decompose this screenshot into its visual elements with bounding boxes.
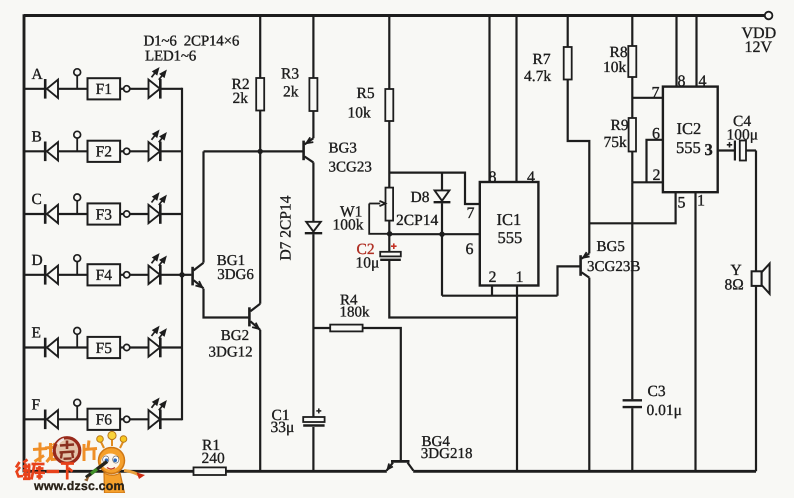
svg-text:6: 6 bbox=[652, 126, 660, 143]
svg-text:A: A bbox=[32, 66, 44, 83]
svg-text:F5: F5 bbox=[96, 340, 113, 357]
wire: row E LED to collector bus bbox=[160, 346, 182, 348]
node: row B output terminal bbox=[120, 148, 148, 154]
block F1 sensor unit bbox=[88, 78, 121, 99]
svg-text:10k: 10k bbox=[348, 105, 372, 122]
wire: row C from left bus to diode bbox=[24, 213, 45, 215]
node: row F sensor terminal bbox=[74, 399, 81, 419]
wire: pin2 run to BG5 base riser bbox=[442, 295, 558, 297]
label Y 8ohm bbox=[725, 262, 744, 294]
transistor BG2 3DG12 bbox=[249, 304, 260, 330]
svg-text:75k: 75k bbox=[604, 134, 628, 151]
wire: IC1 pin2 stub bbox=[491, 286, 493, 296]
wire: row D diode to box F4 bbox=[58, 274, 88, 276]
transistor BG3 3CG23 bbox=[304, 137, 314, 162]
pin label 6 (IC1) bbox=[466, 241, 474, 258]
svg-text:R3: R3 bbox=[281, 66, 299, 83]
resistor R3 2k bbox=[281, 16, 317, 139]
svg-text:8: 8 bbox=[489, 169, 497, 186]
pin label 6 (IC2) bbox=[652, 126, 660, 143]
label BG2 bbox=[209, 328, 253, 361]
label W1 bbox=[333, 204, 364, 234]
diode D6 2CP14 bbox=[45, 410, 58, 430]
pin label 4 (IC1) bbox=[527, 169, 535, 186]
node: row E sensor terminal bbox=[74, 328, 81, 348]
node A input label bbox=[32, 66, 44, 83]
wire: BG5 collector to ground bus bbox=[588, 278, 590, 472]
potentiometer W1 100k bbox=[369, 188, 393, 234]
resistor R8 10k bbox=[603, 16, 636, 119]
IC U2: IC2 555 timer box bbox=[663, 87, 718, 193]
svg-text:E: E bbox=[32, 325, 41, 342]
svg-text:6: 6 bbox=[466, 241, 474, 258]
svg-text:IC2: IC2 bbox=[677, 119, 702, 138]
node B input label bbox=[32, 128, 42, 145]
node C input label bbox=[32, 191, 42, 208]
wire: row D from left bus to diode bbox=[24, 274, 45, 276]
svg-text:D1~6 2CP14×6: D1~6 2CP14×6 bbox=[144, 34, 240, 50]
wire: row F from left bus to diode bbox=[24, 418, 45, 420]
svg-text:3DG6: 3DG6 bbox=[217, 267, 254, 283]
node D input label bbox=[32, 252, 43, 269]
capacitor C3 0.01μ bbox=[623, 182, 682, 471]
svg-text:F6: F6 bbox=[96, 412, 113, 429]
svg-text:F2: F2 bbox=[96, 144, 112, 161]
block F3 sensor unit bbox=[88, 203, 121, 224]
annotation: diode types bbox=[144, 34, 240, 50]
wire: row B LED to collector bus bbox=[160, 150, 182, 152]
wire: row E diode to box F5 bbox=[58, 346, 88, 348]
label BG5 bbox=[587, 239, 640, 275]
junction W1 wiper node bbox=[387, 231, 392, 236]
wire: bottom ground bus (left of R1) bbox=[24, 470, 194, 473]
svg-text:7: 7 bbox=[652, 85, 660, 102]
diode D4 2CP14 bbox=[45, 265, 58, 285]
wire: +V top supply bus bbox=[24, 14, 765, 17]
svg-text:D8: D8 bbox=[411, 189, 430, 206]
svg-text:F1: F1 bbox=[96, 81, 112, 98]
pin label 2 (IC1) bbox=[489, 269, 497, 286]
pin label 7 (IC2) bbox=[652, 85, 660, 102]
junction D8/pin6 node bbox=[439, 232, 444, 237]
svg-text:F3: F3 bbox=[96, 206, 113, 223]
wire: BG2 collector up to node bbox=[259, 151, 261, 303]
svg-text:180k: 180k bbox=[340, 305, 371, 321]
wire: BG1 collector up to node bbox=[202, 151, 204, 262]
resistor R9 75k bbox=[604, 117, 637, 182]
node: row F output terminal bbox=[120, 416, 148, 422]
wire: R5 node to pin7 corner bbox=[389, 173, 479, 204]
svg-text:4: 4 bbox=[527, 169, 535, 186]
block F6 sensor unit bbox=[88, 409, 121, 430]
node: row E output terminal bbox=[120, 344, 148, 350]
svg-text:1: 1 bbox=[697, 193, 705, 210]
wire: BG2 emitter down to ground bus bbox=[259, 330, 261, 471]
wire: IC2 pin7 run bbox=[632, 97, 662, 99]
svg-text:C: C bbox=[32, 191, 42, 208]
svg-text:2k: 2k bbox=[233, 90, 249, 107]
junction R2/BG collectors node bbox=[258, 149, 263, 154]
svg-text:33μ: 33μ bbox=[271, 419, 295, 436]
node: row A output terminal bbox=[120, 86, 148, 92]
diode D7 2CP14 bbox=[305, 222, 322, 233]
speaker Y 8 ohm bbox=[752, 264, 770, 294]
pin label 7 (IC1) bbox=[467, 205, 475, 222]
block F4 sensor unit bbox=[88, 264, 121, 285]
svg-text:C3: C3 bbox=[648, 383, 666, 400]
label D7 (vertical) bbox=[278, 195, 295, 260]
wire: IC1 pin1 to ground bus bbox=[516, 286, 518, 472]
diode D1 2CP14 bbox=[45, 79, 58, 99]
resistor R5 10k bbox=[348, 16, 394, 188]
svg-text:2: 2 bbox=[489, 269, 497, 286]
node F input label bbox=[32, 396, 41, 413]
svg-text:4.7k: 4.7k bbox=[524, 68, 551, 85]
wire: D7 cathode down to C1 bbox=[312, 234, 314, 417]
svg-text:D: D bbox=[32, 252, 43, 269]
wire: row F diode to box F6 bbox=[58, 418, 88, 420]
svg-text:10μ: 10μ bbox=[356, 255, 380, 272]
label BG3 bbox=[329, 141, 372, 176]
svg-text:BG5: BG5 bbox=[597, 239, 625, 255]
pin label 1 (IC2) bbox=[697, 193, 705, 210]
diode D2 2CP14 bbox=[45, 142, 58, 162]
pin label 2 (IC2) bbox=[653, 167, 661, 184]
wire: row C LED to collector bus bbox=[160, 213, 182, 215]
label BG4 bbox=[421, 434, 473, 462]
junction at LED bus / BG1 base bbox=[179, 272, 184, 277]
LED LED4 bbox=[149, 254, 167, 285]
diode D8 2CP14 bbox=[434, 173, 451, 203]
block F5 sensor unit bbox=[88, 337, 121, 358]
pin label 8 (IC2) bbox=[678, 73, 686, 90]
pin label 4 (IC2) bbox=[699, 73, 707, 90]
IC U1: IC1 555 timer box bbox=[480, 182, 539, 286]
pin label 1 (IC1) bbox=[516, 269, 524, 286]
svg-text:F4: F4 bbox=[96, 267, 113, 284]
wire: bottom ground bus (right of BG4) bbox=[413, 470, 756, 473]
wire: IC1 pin 4 to supply bbox=[515, 16, 517, 182]
svg-text:8Ω: 8Ω bbox=[725, 277, 744, 294]
node: row D sensor terminal bbox=[74, 255, 81, 275]
svg-text:7: 7 bbox=[467, 205, 475, 222]
block F2 sensor unit bbox=[88, 141, 121, 162]
wire: pin6 run W1 node to IC1 bbox=[389, 233, 479, 235]
wire: IC2 pin 4 to supply bbox=[695, 16, 697, 87]
svg-text:240: 240 bbox=[202, 450, 226, 467]
capacitor C2 10μ bbox=[356, 241, 401, 272]
node: row C output terminal bbox=[120, 211, 148, 217]
wire: BG1 base from bus bbox=[182, 274, 191, 276]
wire: row B diode to box F2 bbox=[58, 150, 88, 152]
svg-text:F: F bbox=[32, 396, 41, 413]
svg-text:3DG12: 3DG12 bbox=[209, 345, 253, 361]
svg-text:555: 555 bbox=[676, 138, 701, 157]
wire: IC2 pin 8 to supply bbox=[675, 16, 677, 87]
transistor BG4 3DG218 bbox=[387, 461, 414, 470]
resistor R4 180k bbox=[330, 293, 370, 332]
wire: row B from left bus to diode bbox=[24, 150, 45, 152]
wire: row E from left bus to diode bbox=[24, 346, 45, 348]
LED LED2 bbox=[149, 131, 167, 162]
svg-text:5: 5 bbox=[678, 195, 686, 212]
wire: IC2 pin3 to C4 bbox=[718, 149, 735, 151]
svg-text:100k: 100k bbox=[333, 217, 364, 234]
wire: speaker return riser bbox=[755, 286, 757, 471]
node: row B sensor terminal bbox=[74, 131, 81, 151]
transistor BG1 3DG6 bbox=[193, 263, 204, 289]
wire: BG3 collector down to D7 bbox=[312, 162, 314, 221]
wire: W1 to C2 bbox=[388, 221, 390, 252]
svg-text:0.01μ: 0.01μ bbox=[647, 402, 682, 419]
wire: BG5 base riser bbox=[558, 266, 580, 295]
node: row D output terminal bbox=[120, 272, 148, 278]
transistor BG5 3CG23B bbox=[581, 252, 590, 278]
svg-text:R5: R5 bbox=[357, 85, 375, 102]
svg-text:2: 2 bbox=[653, 167, 661, 184]
svg-text:100μ: 100μ bbox=[727, 127, 759, 144]
node: row A sensor terminal bbox=[74, 69, 81, 89]
wire: IC2 pin6 tie to pin2 bbox=[647, 140, 663, 183]
svg-text:www.dzsc.com: www.dzsc.com bbox=[33, 479, 125, 493]
svg-text:4: 4 bbox=[699, 73, 707, 90]
wire: BG1 emitter to BG2 base bbox=[204, 289, 249, 318]
svg-text:R7: R7 bbox=[533, 51, 551, 68]
watermark logo www.dzsc.com bbox=[16, 431, 145, 493]
svg-text:3: 3 bbox=[705, 140, 713, 159]
LED LED3 bbox=[149, 193, 167, 224]
label BG1 bbox=[217, 253, 255, 283]
svg-text:LED1~6: LED1~6 bbox=[145, 49, 197, 65]
wire: R4 to BG4 base bbox=[363, 328, 401, 460]
wire: left input bus bbox=[23, 14, 26, 472]
svg-text:B: B bbox=[32, 128, 42, 145]
pin label 8 (IC1) bbox=[489, 169, 497, 186]
wire: row A LED to collector bus bbox=[160, 88, 182, 90]
wire: IC2 pin2 run bbox=[632, 181, 662, 183]
capacitor C4 100μ bbox=[727, 113, 759, 161]
wire: IC2 pin5 run bbox=[589, 193, 675, 224]
svg-text:BG2: BG2 bbox=[221, 328, 249, 344]
wire: collectors node to BG3 base bbox=[204, 150, 303, 152]
wire: D8 cathode down to pin2 run bbox=[441, 203, 443, 296]
wire: bottom ground bus (R1 to BG4) bbox=[226, 470, 387, 473]
svg-text:12V: 12V bbox=[745, 39, 773, 56]
wire: row C diode to box F3 bbox=[58, 213, 88, 215]
wire: row F LED to collector bus bbox=[160, 418, 182, 420]
wire: row A from left bus to diode bbox=[24, 88, 45, 90]
capacitor C1 33μ bbox=[271, 407, 325, 436]
wire: row A diode to box F1 bbox=[58, 88, 88, 90]
resistor R2 2k bbox=[232, 16, 265, 152]
resistor R7 4.7k bbox=[524, 16, 589, 254]
wire: C4 to speaker bbox=[755, 151, 757, 272]
svg-text:2k: 2k bbox=[283, 84, 299, 101]
svg-text:IC1: IC1 bbox=[497, 210, 522, 229]
wire: IC1 pin 8 to supply bbox=[488, 16, 490, 182]
LED LED6 bbox=[149, 399, 167, 430]
svg-text:BG3: BG3 bbox=[329, 141, 357, 157]
wire: C1 to ground bus bbox=[312, 427, 314, 471]
node: row C sensor terminal bbox=[74, 194, 81, 214]
LED LED5 bbox=[149, 327, 167, 358]
resistor R1 240 bbox=[194, 437, 226, 475]
svg-text:555: 555 bbox=[498, 228, 523, 247]
svg-text:10k: 10k bbox=[603, 59, 627, 76]
svg-text:3DG218: 3DG218 bbox=[421, 446, 473, 462]
wire: row D LED to collector bus bbox=[160, 274, 182, 276]
wire: LED common bus to BG1 base bbox=[181, 88, 183, 421]
annotation: LED types bbox=[145, 49, 197, 65]
svg-text:8: 8 bbox=[678, 73, 686, 90]
wire: D7 line to R4 bbox=[313, 327, 330, 329]
svg-text:D7 2CP14: D7 2CP14 bbox=[278, 195, 295, 260]
wire: C2 negative to IC1 pin1 line bbox=[389, 261, 517, 318]
node E input label bbox=[32, 325, 41, 342]
diode D3 2CP14 bbox=[45, 204, 58, 224]
wire: IC2 pin1 to ground bus bbox=[694, 193, 696, 472]
svg-text:2CP14: 2CP14 bbox=[396, 212, 438, 229]
diode D5 2CP14 bbox=[45, 338, 58, 358]
svg-text:1: 1 bbox=[516, 269, 524, 286]
svg-text:3CG23: 3CG23 bbox=[329, 160, 372, 176]
svg-text:R9: R9 bbox=[611, 117, 629, 134]
node VDD supply terminal bbox=[742, 12, 777, 56]
label D8 bbox=[396, 189, 438, 229]
pin label 5 (IC2) bbox=[678, 195, 686, 212]
LED LED1 bbox=[149, 68, 167, 99]
